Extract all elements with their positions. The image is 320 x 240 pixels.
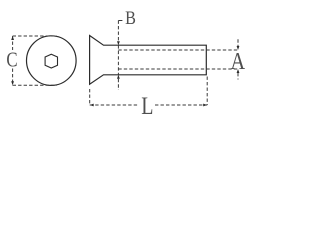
B arrow up at shank bottom <box>117 75 120 79</box>
A dimension line upper <box>237 39 239 46</box>
svg-text:B: B <box>125 8 136 29</box>
C arrow up <box>11 36 14 40</box>
side view screw outline <box>90 36 207 85</box>
B leader tick <box>118 20 122 22</box>
hex socket (front view) <box>45 54 57 68</box>
L dimension line left part <box>90 104 139 106</box>
L arrow right <box>203 104 207 107</box>
C dimension line upper segment <box>12 36 14 50</box>
B arrow down at shank top <box>117 41 120 45</box>
C dimension line lower segment <box>12 69 14 86</box>
A dimension line lower <box>237 73 239 80</box>
A arrow up at bottom ext <box>237 69 240 73</box>
B dimension line lower <box>117 79 119 90</box>
L extension line left <box>89 89 91 105</box>
C extension line bottom <box>13 84 57 86</box>
front view head circle <box>27 36 77 86</box>
B dimension line upper <box>117 21 119 42</box>
B dimension line through shank <box>117 45 119 75</box>
L extension line right <box>206 77 208 106</box>
hidden thread line bottom <box>118 68 238 70</box>
A arrow down at top ext <box>237 46 240 50</box>
svg-text:L: L <box>141 93 153 120</box>
L arrow left <box>90 104 94 107</box>
svg-text:C: C <box>6 48 17 72</box>
C arrow down <box>11 81 14 85</box>
hidden thread line top <box>118 49 238 51</box>
svg-text:A: A <box>231 49 246 75</box>
C extension line top <box>13 35 57 37</box>
L dimension line right part <box>155 104 207 106</box>
